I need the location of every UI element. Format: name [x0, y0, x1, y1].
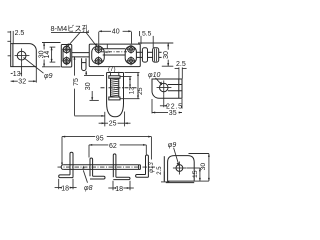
svg-text:5: 5 [106, 50, 112, 53]
svg-text:2.5: 2.5 [176, 61, 186, 68]
side view body (stadium) [107, 72, 124, 74]
svg-text:8-M4ビス孔: 8-M4ビス孔 [51, 24, 90, 33]
mid guide bracket A [90, 158, 93, 176]
BOTTOM RIGHT DOME PLATE [161, 142, 210, 183]
flange inner edge [12, 44, 14, 67]
keeper plate outline [11, 44, 37, 67]
bar centerline through side view [101, 87, 138, 89]
left boss capsule [63, 46, 70, 64]
dimension 15 [186, 167, 200, 169]
main plate left boss [92, 46, 105, 64]
svg-text:13: 13 [13, 71, 21, 78]
dimension 75 [74, 56, 76, 75]
main plate right boss [125, 46, 136, 64]
svg-text:95: 95 [96, 136, 104, 143]
svg-text:40: 40 [112, 29, 120, 36]
knob washer 2 [153, 48, 159, 62]
dimension 18 right [112, 181, 114, 190]
hole phi9 [176, 165, 183, 172]
bolt bar [63, 164, 138, 166]
dimension 25 bottom (width) [104, 112, 106, 127]
handle pin [82, 58, 86, 70]
base line [166, 182, 194, 184]
dimension 25 side [125, 72, 140, 74]
dimension 30 right [138, 42, 173, 44]
svg-text:φ9: φ9 [168, 142, 177, 149]
main plate [89, 44, 140, 67]
dimension 30 left of latch [42, 42, 61, 44]
left hook bracket [70, 152, 73, 177]
bar centerline [58, 166, 156, 168]
bracket cross-section flange top [109, 76, 120, 79]
dimension 13 side [120, 76, 131, 78]
svg-text:φ13: φ13 [149, 162, 155, 173]
dimension 62 [89, 144, 108, 146]
leader to left plate hole [68, 32, 81, 46]
svg-text:30: 30 [163, 51, 170, 59]
main plate screw holes [95, 46, 102, 53]
slot lines [168, 84, 182, 86]
slot in main plate [103, 48, 126, 50]
leader to main plate hole [86, 32, 97, 46]
svg-text:14: 14 [44, 51, 51, 59]
svg-text:(7): (7) [108, 66, 116, 73]
svg-text:32: 32 [18, 79, 26, 86]
svg-text:35: 35 [169, 110, 177, 117]
keeper plate outline [152, 79, 182, 98]
dimension 18 left [58, 179, 60, 189]
TOP VIEW ASSEMBLY [38, 24, 173, 70]
dimension 22.5 [163, 95, 165, 108]
mid guide bracket B [113, 154, 116, 177]
svg-text:62: 62 [109, 143, 117, 150]
slot width 5 [106, 44, 108, 49]
svg-text:18: 18 [61, 185, 69, 192]
svg-text:φ10: φ10 [148, 72, 160, 79]
dimension 95 [62, 136, 95, 138]
hole crosshair [15, 55, 30, 57]
washer 1 [142, 48, 147, 62]
svg-text:25: 25 [109, 121, 117, 128]
left flange line [163, 156, 165, 181]
dimension 2.5 tick [163, 171, 165, 182]
TOP LEFT KEEPER PLATE [7, 30, 52, 85]
svg-text:φ9: φ9 [44, 73, 53, 80]
svg-text:13: 13 [129, 87, 136, 95]
hole phi9 [17, 51, 26, 60]
dimension 40 [98, 32, 100, 44]
dimension 2.5 (flange) [10, 31, 12, 44]
svg-text:25: 25 [137, 87, 144, 95]
crosshair extension for dim 13 [21, 63, 23, 77]
bar stubs right [136, 51, 142, 53]
bracket cross-section flange bottom [109, 97, 120, 100]
dimension 30 [189, 153, 209, 155]
TOP RIGHT KEEPER PLATE [148, 61, 187, 117]
phi8 label [83, 170, 87, 182]
svg-text:φ8: φ8 [84, 185, 93, 192]
svg-text:18: 18 [115, 186, 123, 193]
dimension 5.5 [140, 36, 142, 44]
bracket cross-section hatched body [111, 78, 119, 97]
left plate screw holes [63, 46, 70, 53]
right end bracket [146, 155, 149, 177]
dome plate outline [168, 156, 195, 182]
dimension 14 [50, 46, 56, 48]
BOTTOM FRONT VIEW [55, 136, 163, 193]
svg-text:15: 15 [192, 170, 199, 178]
svg-text:75: 75 [73, 78, 80, 86]
hole phi10 [160, 83, 169, 92]
svg-text:5.5: 5.5 [142, 31, 152, 38]
svg-text:30: 30 [85, 82, 92, 90]
SIDE VIEW [73, 56, 144, 127]
left guide plate [61, 45, 71, 68]
phi9 label [24, 58, 44, 74]
dimension 30 mid [85, 71, 87, 76]
flange inner edge [178, 79, 180, 98]
bolt bar between plates [72, 52, 90, 54]
svg-text:2.5: 2.5 [15, 30, 25, 37]
svg-text:30: 30 [200, 163, 207, 171]
svg-text:2.5: 2.5 [157, 166, 163, 175]
dimension 32 [35, 67, 37, 82]
dimension 35 [151, 99, 153, 113]
dimension 13 [11, 72, 22, 74]
